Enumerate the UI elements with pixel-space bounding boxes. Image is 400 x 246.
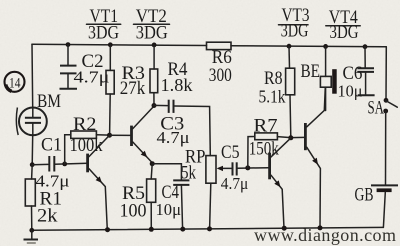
- svg-text:C1: C1: [41, 134, 62, 155]
- node VT3 collector / R8 / R7 / VT4 base: [288, 135, 293, 140]
- node VT1 collector / R2 / R3 / VT2 base: [107, 133, 112, 138]
- capacitor C1: [32, 134, 69, 190]
- wire node to VT2 base: [110, 134, 131, 136]
- svg-text:27k: 27k: [120, 78, 146, 99]
- svg-text:3DG: 3DG: [330, 23, 359, 43]
- svg-text:BE: BE: [301, 61, 321, 82]
- resistor R6: [207, 42, 232, 86]
- transistor VT4: [305, 87, 325, 228]
- transistor VT1: [88, 135, 110, 229]
- wire top rail right segment: [231, 46, 386, 47]
- speaker BE: [301, 44, 337, 111]
- ground: [24, 228, 39, 243]
- wire left rail: [31, 44, 34, 107]
- capacitor C3: [154, 100, 190, 147]
- node R4 / VT2 collector / C3: [152, 103, 157, 108]
- svg-text:5k: 5k: [181, 163, 196, 184]
- svg-text:300: 300: [209, 65, 232, 86]
- switch SA: [368, 98, 398, 119]
- resistor R2: [65, 114, 110, 164]
- wire C3 to RP: [175, 106, 211, 156]
- node C5 / R7 / VT3 base: [245, 165, 250, 170]
- potentiometer RP: [181, 147, 231, 229]
- svg-text:150k: 150k: [249, 139, 279, 160]
- resistor R8: [259, 44, 295, 138]
- transistor VT3: [270, 138, 291, 228]
- resistor R3: [106, 42, 146, 135]
- svg-text:3DG: 3DG: [281, 22, 309, 42]
- svg-text:4.7μ: 4.7μ: [221, 174, 249, 193]
- svg-text:R7: R7: [254, 115, 278, 136]
- node bottom rail junctions: [105, 225, 323, 232]
- svg-text:10μ: 10μ: [338, 82, 363, 101]
- capacitor C2: [60, 42, 110, 89]
- resistor R1: [25, 165, 62, 231]
- svg-text:3DG: 3DG: [136, 23, 168, 43]
- svg-text:14: 14: [9, 75, 21, 91]
- node R2 lead on base wire: [62, 162, 67, 167]
- label VT1 3DG: [87, 7, 121, 44]
- battery GB: [355, 185, 399, 228]
- resistor R5: [120, 164, 156, 230]
- svg-text:3DG: 3DG: [88, 23, 119, 43]
- svg-text:100k: 100k: [70, 135, 103, 156]
- node mic/C1/R1 junction: [30, 162, 35, 167]
- node VT2 emitter junction: [150, 161, 155, 166]
- svg-text:4.7μ: 4.7μ: [157, 128, 190, 147]
- svg-text:R2: R2: [73, 114, 97, 135]
- capacitor C6: [338, 44, 375, 100]
- svg-text:BM: BM: [37, 91, 61, 112]
- resistor R4: [150, 43, 193, 106]
- svg-text:www.diangon.com: www.diangon.com: [254, 225, 396, 245]
- watermark www.diangon.com: [254, 225, 396, 245]
- svg-text:C5: C5: [221, 142, 240, 163]
- svg-text:2k: 2k: [37, 206, 58, 227]
- svg-text:5.1k: 5.1k: [259, 86, 286, 106]
- wire right rail top: [385, 47, 387, 101]
- label VT2 3DG: [134, 7, 170, 44]
- label VT3 3DG: [279, 6, 310, 41]
- wire bottom rail: [32, 227, 384, 230]
- capacitor C5: [221, 142, 269, 193]
- capacitor C4: [152, 164, 189, 229]
- wire right rail middle: [385, 111, 387, 185]
- resistor R7: [248, 115, 304, 168]
- svg-text:GB: GB: [355, 185, 374, 206]
- microphone BM: [16, 91, 61, 135]
- wire C1 to VT1 base: [54, 163, 87, 164]
- svg-text:100: 100: [120, 201, 147, 222]
- svg-text:1.8k: 1.8k: [161, 75, 193, 95]
- badge circled 14: [5, 72, 25, 92]
- svg-text:10μ: 10μ: [156, 200, 182, 219]
- svg-text:4.7μ: 4.7μ: [74, 68, 110, 87]
- label VT4 3DG: [326, 8, 360, 43]
- transistor VT2: [132, 106, 154, 163]
- svg-text:SA: SA: [368, 98, 385, 119]
- wire mic bottom to node: [31, 135, 34, 164]
- wire top rail left segment: [32, 44, 207, 45]
